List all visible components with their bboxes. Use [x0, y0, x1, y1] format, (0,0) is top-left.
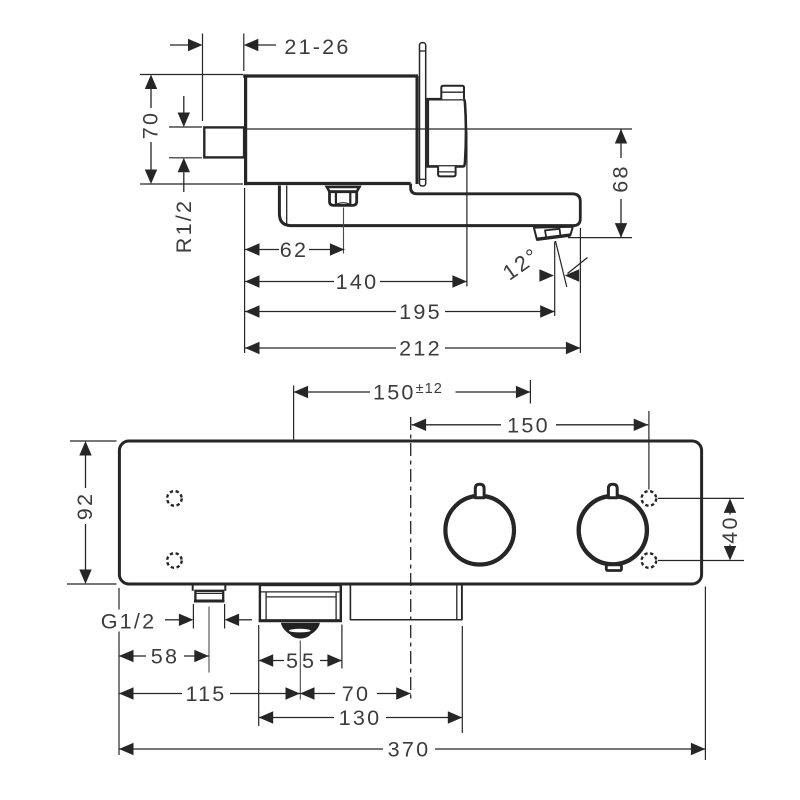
dim 70 front	[300, 687, 315, 699]
svg-text:58: 58	[151, 644, 179, 669]
spout inner vertical line	[286, 186, 288, 225]
G1/2 right extension	[224, 604, 226, 629]
valve escutcheon block right edge	[461, 585, 463, 621]
aerator dome	[281, 623, 320, 639]
spout block inner right	[335, 592, 337, 620]
mixer body left edge	[244, 74, 247, 185]
svg-text:370: 370	[388, 737, 431, 762]
extension line body left lower	[244, 188, 246, 353]
right dial (volume handle)	[579, 496, 647, 564]
valve escutcheon block bottom edge	[350, 619, 462, 621]
fixing hole top-right	[642, 491, 657, 506]
dim 55	[259, 654, 274, 666]
mixer body bottom edge	[244, 182, 411, 185]
svg-text:55: 55	[286, 648, 318, 673]
dim 370	[119, 743, 134, 755]
valve escutcheon block inner right	[456, 585, 458, 620]
spout block outer	[260, 585, 341, 621]
dim 70 bottom extension line	[140, 183, 243, 185]
svg-text:21-26: 21-26	[284, 34, 350, 59]
pipe dim lower arrow	[178, 158, 190, 173]
valve escutcheon block left edge	[349, 585, 351, 621]
dim 70 line lower	[150, 142, 152, 171]
dim 130	[259, 711, 274, 723]
dim 40 line upper	[724, 498, 736, 513]
svg-text:115: 115	[185, 681, 226, 706]
svg-text:195: 195	[399, 299, 442, 324]
svg-text:212: 212	[399, 336, 442, 361]
nut center leader	[343, 208, 345, 254]
dim 150+-12 line	[294, 386, 309, 398]
pipe bottom extension line	[169, 157, 202, 159]
mixer body centerline / 68 top extension	[246, 128, 632, 130]
spout block bottom thick edge	[259, 619, 342, 622]
svg-text:G1/2: G1/2	[101, 609, 157, 634]
fixing hole bottom-left	[167, 553, 182, 568]
dim 68 line upper	[615, 129, 627, 144]
aerator highlight	[289, 629, 311, 633]
dim 150+-12 right tick	[529, 380, 531, 404]
G1/2 box inner line	[195, 592, 223, 594]
spout lower outline	[279, 186, 574, 226]
svg-text:130: 130	[339, 705, 382, 730]
dim 12deg left arrow	[539, 269, 554, 281]
extension body left lower	[118, 588, 120, 610]
G1/2 connection collar left	[192, 586, 194, 591]
dim 68 line lower	[620, 199, 622, 238]
dim 21-26 right arrow	[244, 39, 258, 51]
front body outline	[119, 441, 701, 584]
dim 21-26 left extension line	[202, 34, 204, 122]
extension line 68 bottom	[568, 237, 632, 239]
extension body right lower	[704, 587, 706, 761]
pipe dim upper arrow	[183, 96, 185, 113]
dim 92 top extension	[70, 440, 117, 442]
dim 212	[245, 342, 260, 354]
handle bottom tab inner line	[438, 171, 456, 173]
inlet pipe	[204, 127, 244, 157]
G1/2 box bottom thick edge	[194, 600, 224, 603]
dim 40 line lower	[724, 546, 736, 561]
G1/2 left extension	[192, 604, 194, 629]
dim 12deg right arrow	[565, 269, 580, 281]
extension line spout end	[579, 228, 581, 353]
dim 58	[119, 650, 134, 662]
right dial bottom tab	[606, 565, 621, 571]
svg-text:68: 68	[608, 164, 633, 192]
svg-text:70: 70	[342, 681, 370, 706]
handle top tab inner line	[441, 91, 464, 93]
handle main block	[428, 99, 466, 166]
spout outlet aerator (tilted)	[534, 227, 573, 240]
svg-text:140: 140	[336, 269, 379, 294]
G1/2 connection box	[195, 591, 223, 601]
dim 140	[245, 275, 260, 287]
dim 195	[245, 305, 260, 317]
mixer body right edge	[416, 76, 419, 184]
spout block inner top line	[261, 591, 340, 593]
wall plate bottom cap line	[420, 178, 426, 180]
extension line spout tip vertical / 12 deg reference	[554, 242, 556, 317]
dim 150+-12 left extension	[293, 386, 295, 440]
dim 70 line upper	[145, 75, 157, 90]
dim G1/2 right arrow	[225, 614, 240, 626]
dim 92 line lower	[85, 524, 87, 571]
dim G1/2 left arrow	[165, 619, 179, 621]
pipe top extension line	[169, 126, 202, 128]
retaining nut flange	[327, 187, 360, 192]
svg-text:62: 62	[280, 237, 308, 262]
dim 150 line	[412, 419, 427, 431]
svg-text:70: 70	[138, 111, 163, 139]
svg-text:R1/2: R1/2	[171, 199, 196, 253]
dim 21-26 left arrow	[170, 44, 189, 46]
retaining nut body	[330, 192, 357, 206]
svg-text:92: 92	[72, 492, 97, 520]
extension spout block left	[258, 625, 260, 726]
dim 92 line upper	[79, 441, 91, 456]
wall plate bar	[420, 43, 426, 186]
extension escutcheon right	[461, 626, 463, 733]
wall plate top cap line	[420, 50, 426, 52]
nut facet line right	[349, 192, 351, 205]
left dial (thermostat handle)	[445, 496, 514, 565]
nut facet line left	[335, 192, 337, 205]
dim 40 top extension	[658, 497, 744, 499]
right dial top tab	[608, 484, 617, 498]
spout upper outline	[411, 184, 581, 226]
dim 62	[245, 243, 260, 255]
nut facet bottom arc	[337, 203, 350, 205]
dim 70 top extension line	[140, 74, 243, 76]
spout block inner groove line	[266, 596, 336, 598]
fixing hole top-left	[167, 491, 182, 506]
12 deg tilted line	[556, 241, 567, 287]
handle bottom tab	[438, 166, 456, 176]
aerator center leader	[299, 641, 301, 700]
G1/2 center leader	[208, 607, 210, 673]
dim 150 right extension	[648, 411, 650, 490]
extension line handle right	[466, 131, 468, 287]
svg-text:40: 40	[717, 515, 742, 543]
svg-text:150: 150	[507, 413, 550, 438]
mixer body top edge	[243, 74, 418, 77]
extension spout block right	[341, 625, 343, 669]
fixing hole bottom-right	[642, 553, 657, 568]
G1/2 connection collar right	[224, 586, 226, 591]
spout block inner left	[265, 592, 267, 620]
dim 92 bottom extension	[67, 583, 117, 585]
dim 40 bottom extension	[658, 560, 744, 562]
left dial top tab	[475, 484, 484, 498]
dim 115	[119, 687, 134, 699]
handle top tab	[441, 86, 464, 99]
dim 21-26 right extension line	[243, 34, 245, 72]
product centerline (dashed)	[410, 417, 412, 699]
